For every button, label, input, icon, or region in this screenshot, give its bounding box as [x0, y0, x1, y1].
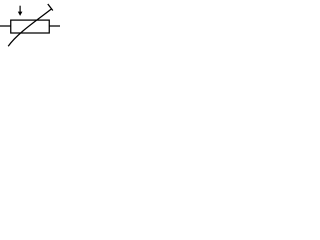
wire: left lead [0, 25, 11, 27]
arrow shaft (pointing down at body) [19, 6, 21, 13]
adjustment diagonal stroke [8, 9, 52, 47]
variable resistor (adjustable, IEC box symbol) [0, 0, 60, 47]
resistor body (rectangle) [11, 20, 50, 33]
arrow head [18, 12, 23, 16]
T-bar at top of diagonal [48, 4, 53, 11]
wire: right lead [49, 25, 60, 27]
